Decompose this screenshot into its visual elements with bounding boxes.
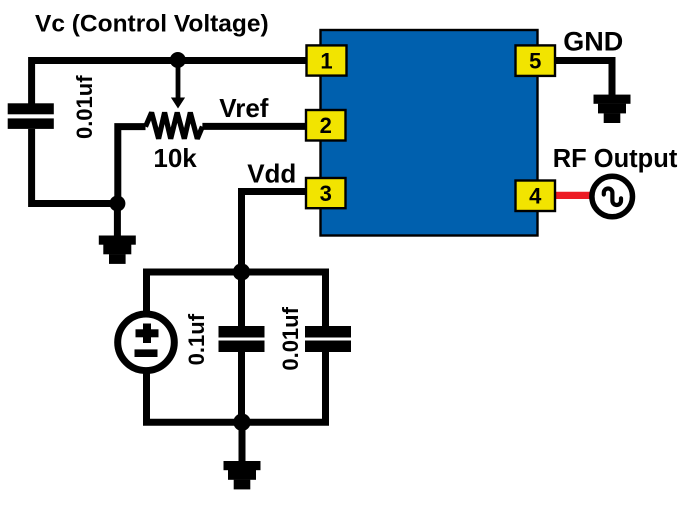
svg-text:5: 5 — [529, 49, 541, 74]
svg-text:RF Output: RF Output — [553, 145, 678, 173]
svg-text:2: 2 — [320, 113, 332, 138]
svg-text:Vdd: Vdd — [247, 158, 296, 188]
svg-text:GND: GND — [563, 27, 623, 57]
svg-text:Vc (Control Voltage): Vc (Control Voltage) — [35, 11, 269, 38]
svg-text:3: 3 — [320, 181, 332, 206]
svg-text:1: 1 — [320, 48, 332, 73]
svg-text:4: 4 — [529, 184, 542, 209]
svg-text:0.1uf: 0.1uf — [184, 313, 209, 365]
svg-text:Vref: Vref — [219, 93, 268, 123]
svg-text:0.01uf: 0.01uf — [278, 306, 303, 370]
svg-text:0.01uf: 0.01uf — [72, 75, 97, 139]
svg-text:10k: 10k — [153, 143, 197, 173]
